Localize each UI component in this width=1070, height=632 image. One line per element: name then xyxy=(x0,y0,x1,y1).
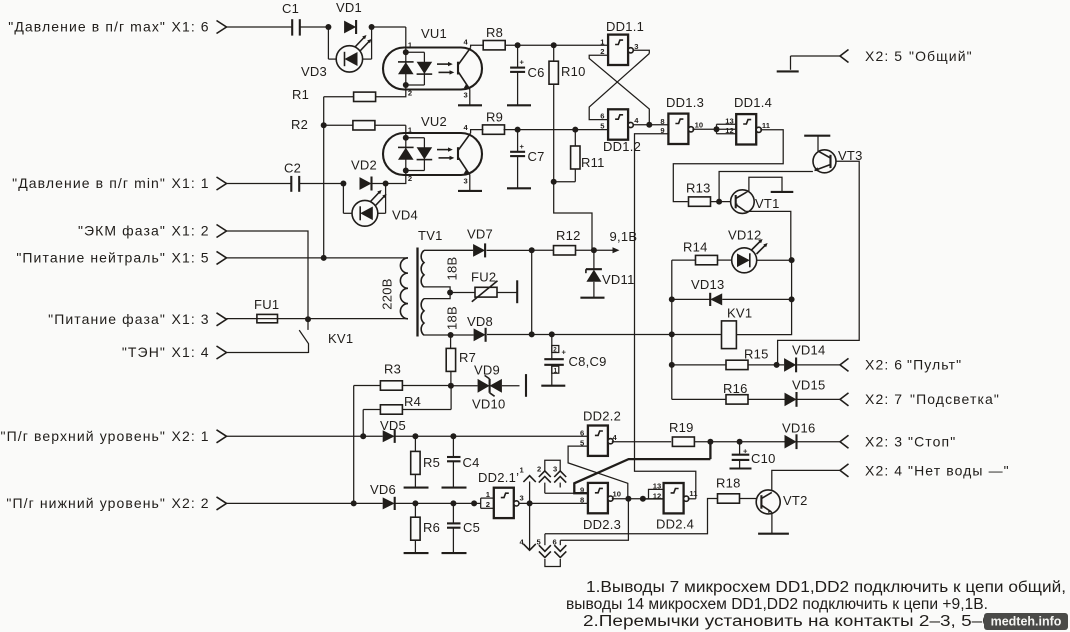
capacitor C8 C9 xyxy=(544,334,606,385)
wire VT2 emitter xyxy=(770,512,773,533)
svg-text:"ТЭН": "ТЭН" xyxy=(122,344,166,360)
svg-text:VD9: VD9 xyxy=(474,363,500,378)
transistor VT3 xyxy=(813,148,863,173)
diode VD8 xyxy=(474,328,486,342)
node VD1-out xyxy=(369,24,375,30)
svg-text:+: + xyxy=(562,348,567,357)
DD2.1 pin labels xyxy=(486,490,524,509)
node R3 X2:2 xyxy=(351,500,357,506)
relay coil KV1 xyxy=(722,306,753,349)
svg-text:"Стоп": "Стоп" xyxy=(908,434,956,450)
node DD1.34 xyxy=(714,126,720,132)
svg-text:9,1В: 9,1В xyxy=(610,229,638,244)
svg-text:C4: C4 xyxy=(463,455,480,470)
svg-text:"Пульт": "Пульт" xyxy=(907,357,962,373)
svg-text:2: 2 xyxy=(408,88,412,97)
ground VT2 xyxy=(758,532,789,535)
gate DD1.3 xyxy=(666,95,704,144)
node 9.1V xyxy=(591,247,597,253)
svg-text:DD2.2: DD2.2 xyxy=(583,409,621,424)
svg-text:+: + xyxy=(520,58,525,67)
diode VD7 xyxy=(473,243,485,257)
ground VU1 pin3 xyxy=(458,104,482,106)
terminal X2:2 "П/г нижний уровень" xyxy=(6,495,226,511)
suppressor VD9 VD10 xyxy=(451,363,520,412)
diode VD6 xyxy=(370,482,396,510)
svg-text:FU2: FU2 xyxy=(471,270,496,285)
node R10R11 join xyxy=(551,179,557,185)
DD2.4 pin labels xyxy=(653,482,698,501)
contact 2 xyxy=(537,465,551,494)
DD1.2 pin labels xyxy=(600,112,639,131)
node R10 top xyxy=(551,42,557,48)
svg-text:2: 2 xyxy=(486,500,490,509)
svg-text:VD7: VD7 xyxy=(467,227,493,242)
gate DD2.2 xyxy=(583,409,621,456)
terminal X1:6 "Давление в п/г max" xyxy=(8,19,226,35)
ground VU2 pin3 xyxy=(458,190,482,192)
resistor R7 xyxy=(446,335,476,386)
svg-text:X1: 5: X1: 5 xyxy=(172,249,210,265)
wire X1:1 row xyxy=(227,183,386,185)
svg-text:X2: 2: X2: 2 xyxy=(172,495,210,511)
resistor R9 xyxy=(483,110,505,135)
chassis X2:5 xyxy=(777,56,799,71)
svg-text:6: 6 xyxy=(580,428,584,437)
gate DD2.1 xyxy=(478,470,519,518)
wire R2 to VU2 pin1 xyxy=(406,125,413,138)
capacitor C2 xyxy=(284,161,301,192)
svg-text:X2: 6: X2: 6 xyxy=(865,357,903,373)
terminal X2:3 xyxy=(840,434,956,450)
terminal X2:7 xyxy=(840,391,1000,407)
node C5 top xyxy=(450,500,456,506)
svg-text:R11: R11 xyxy=(581,155,605,170)
wire DD1.2 out xyxy=(633,124,668,126)
wire DD1.3 pin9 rail xyxy=(635,134,696,499)
svg-text:VD13: VD13 xyxy=(691,277,725,292)
wire VT3 base xyxy=(778,161,860,365)
svg-text:KV1: KV1 xyxy=(727,306,752,321)
terminal X2:5 xyxy=(791,48,973,64)
node C6 top xyxy=(515,42,521,48)
TV1 primary winding xyxy=(227,258,409,319)
VU2 pin3 wire xyxy=(464,175,470,191)
fuse FU1 xyxy=(227,297,309,323)
resistor R8 xyxy=(483,25,505,50)
VU2 pin2 wire xyxy=(386,171,413,184)
gate DD1.1 xyxy=(606,19,644,65)
svg-text:R19: R19 xyxy=(669,420,694,435)
svg-text:X1: 2: X1: 2 xyxy=(172,223,210,239)
svg-text:"Нет воды —": "Нет воды —" xyxy=(908,463,1010,479)
svg-text:11: 11 xyxy=(689,489,698,498)
svg-text:VT1: VT1 xyxy=(755,196,780,211)
node VT1 base xyxy=(716,199,722,205)
contact 4 xyxy=(520,503,536,550)
svg-text:X1: 6: X1: 6 xyxy=(172,19,210,35)
node R7 bottom xyxy=(448,383,454,389)
wire VD16 to X2:3 xyxy=(798,441,841,443)
svg-text:10: 10 xyxy=(613,490,621,499)
diode VD1 xyxy=(336,0,362,34)
svg-text:6: 6 xyxy=(553,538,557,547)
wire VT1 base to VT3 emitter xyxy=(719,172,813,202)
node VD14 in xyxy=(774,362,780,368)
svg-text:R6: R6 xyxy=(423,520,440,535)
capacitor C10 xyxy=(732,442,776,468)
wire R4 up join xyxy=(450,386,452,410)
wire DD1.4 out to R13 xyxy=(673,130,783,202)
node R6 top xyxy=(412,500,418,506)
node R11 top xyxy=(572,127,578,133)
node C1-VD1 xyxy=(325,24,331,30)
node tap xyxy=(447,290,453,296)
svg-text:R16: R16 xyxy=(723,381,748,396)
svg-text:3: 3 xyxy=(464,91,468,100)
resistor R15 xyxy=(672,347,784,370)
node R2 xyxy=(321,122,327,128)
gate DD1.2 xyxy=(603,109,641,154)
ground R5 xyxy=(404,487,429,489)
wire X1:2 drop xyxy=(227,231,309,319)
label 18V top xyxy=(445,257,460,281)
svg-text:3: 3 xyxy=(520,494,524,503)
svg-text:X1: 1: X1: 1 xyxy=(172,175,210,191)
LED VD3 xyxy=(301,27,372,79)
svg-text:2: 2 xyxy=(537,465,541,474)
wire contact6 line xyxy=(560,499,628,541)
svg-text:"П/г верхний уровень": "П/г верхний уровень" xyxy=(1,428,166,444)
contact KV1 xyxy=(299,319,353,353)
terminal X1:3 "Питание фаза" xyxy=(48,311,226,327)
resistor R3 xyxy=(354,362,451,391)
capacitor C4 xyxy=(447,436,480,487)
svg-text:C8,C9: C8,C9 xyxy=(569,354,607,369)
resistor R5 xyxy=(411,436,440,487)
ground C5 xyxy=(442,552,467,554)
svg-text:TV1: TV1 xyxy=(418,228,443,243)
resistor R10 xyxy=(549,45,586,182)
wire feedback A xyxy=(574,442,710,494)
svg-text:12: 12 xyxy=(653,491,661,500)
ground R6 xyxy=(404,552,429,554)
wire VD14 to X2:6 xyxy=(797,364,840,366)
svg-text:DD1.4: DD1.4 xyxy=(734,95,772,110)
wire R4 drop xyxy=(362,410,364,437)
resistor R4 xyxy=(363,394,451,414)
node contact1 xyxy=(527,500,533,506)
ground C8C9 xyxy=(541,385,565,387)
svg-text:+: + xyxy=(520,142,525,151)
svg-text:R1: R1 xyxy=(292,87,309,102)
wire DD2.3 out xyxy=(612,498,664,500)
resistor R18 xyxy=(716,476,757,504)
svg-text:"Питание нейтраль": "Питание нейтраль" xyxy=(16,249,166,265)
svg-text:"Давление в п/г min": "Давление в п/г min" xyxy=(12,175,166,191)
svg-text:10: 10 xyxy=(695,121,703,130)
svg-text:11: 11 xyxy=(762,121,771,130)
DD1.4 pin labels xyxy=(725,117,770,136)
node C4 top xyxy=(450,433,456,439)
wire VD7 out xyxy=(487,249,532,251)
svg-text:VD15: VD15 xyxy=(792,378,826,393)
svg-text:12: 12 xyxy=(725,126,733,135)
svg-text:C1: C1 xyxy=(282,1,299,16)
svg-text:18В: 18В xyxy=(445,306,460,330)
svg-text:R15: R15 xyxy=(744,347,769,362)
node VD13 left xyxy=(669,296,675,302)
svg-text:выводы 14 микросхем DD1,DD2 по: выводы 14 микросхем DD1,DD2 подключить к… xyxy=(566,596,988,613)
TV1 secondary 2 xyxy=(421,299,450,336)
transformer TV1 core xyxy=(418,228,443,337)
svg-text:X2: 7: X2: 7 xyxy=(865,391,903,407)
resistor R1 xyxy=(292,87,376,102)
DD1.1 pin labels xyxy=(600,37,638,56)
svg-text:VD10: VD10 xyxy=(472,397,506,412)
svg-text:C10: C10 xyxy=(751,451,776,466)
svg-text:"Питание фаза": "Питание фаза" xyxy=(48,311,166,327)
resistor R12 xyxy=(532,228,594,255)
note line 3 xyxy=(583,613,998,630)
node VD8 in xyxy=(448,332,454,338)
svg-text:medteh.info: medteh.info xyxy=(991,615,1062,629)
ground VD11 xyxy=(580,297,604,299)
resistor R6 xyxy=(411,503,440,552)
resistor R19 xyxy=(669,420,694,446)
terminal X2:6 xyxy=(840,357,962,373)
node VD7 out xyxy=(529,247,535,253)
svg-text:8: 8 xyxy=(660,117,664,126)
wire KV1 right xyxy=(736,299,791,334)
capacitor C7 xyxy=(510,130,545,188)
node R5 top xyxy=(412,433,418,439)
node phase xyxy=(305,316,311,322)
svg-text:VD1: VD1 xyxy=(336,0,362,15)
svg-text:R10: R10 xyxy=(561,64,586,79)
LED VD12 xyxy=(728,228,792,273)
svg-text:KV1: KV1 xyxy=(328,331,353,346)
wire R18 left xyxy=(545,499,718,534)
svg-text:DD1.2: DD1.2 xyxy=(603,139,641,154)
svg-text:R12: R12 xyxy=(556,228,581,243)
svg-text:VU1: VU1 xyxy=(421,26,447,41)
wire DD2.1 pin jog xyxy=(474,498,494,508)
gate DD1.4 xyxy=(734,95,772,145)
wire DD2.4 out up xyxy=(688,498,696,500)
transistor VT2 xyxy=(756,490,807,514)
svg-text:X1: 4: X1: 4 xyxy=(172,344,210,360)
svg-text:13: 13 xyxy=(725,117,733,126)
node DD2.3 out xyxy=(625,496,631,502)
svg-text:R9: R9 xyxy=(486,110,503,125)
svg-text:VD11: VD11 xyxy=(602,272,635,287)
svg-text:3: 3 xyxy=(634,42,638,51)
capacitor C1 xyxy=(282,1,300,36)
svg-text:C2: C2 xyxy=(284,161,301,176)
diode VD15 xyxy=(785,378,826,407)
svg-text:DD2.4: DD2.4 xyxy=(656,517,694,532)
svg-text:VU2: VU2 xyxy=(421,114,447,129)
svg-text:VT2: VT2 xyxy=(783,493,808,508)
arrow 9.1V xyxy=(594,229,637,253)
svg-text:13: 13 xyxy=(653,482,661,491)
svg-text:C6: C6 xyxy=(528,65,545,80)
node C7 top xyxy=(515,127,521,133)
svg-text:VD5: VD5 xyxy=(380,418,406,433)
wire TV1 to VD7 xyxy=(424,227,493,251)
diode VD2 xyxy=(351,158,377,191)
wire KV1vert xyxy=(671,260,673,399)
svg-text:R3: R3 xyxy=(384,362,401,377)
wire VD12 vert xyxy=(791,260,793,299)
jumper 2-3 xyxy=(545,460,560,471)
svg-text:R8: R8 xyxy=(486,25,503,40)
svg-text:C7: C7 xyxy=(528,149,545,164)
wire phase to TV1 xyxy=(308,318,408,320)
node DD1.2 out xyxy=(646,122,652,128)
node C2-VD2 xyxy=(340,181,346,187)
DD2.2 pin labels xyxy=(580,428,618,447)
svg-text:VD2: VD2 xyxy=(351,158,377,173)
capacitor C6 xyxy=(510,45,545,104)
node R19 out xyxy=(707,439,713,445)
DD1.3 pin labels xyxy=(660,117,703,135)
ground C10 xyxy=(730,467,752,469)
svg-text:VD4: VD4 xyxy=(392,208,418,223)
contact bar VD9 xyxy=(525,374,527,397)
wire DD2.2 pin5 cross xyxy=(568,446,628,499)
resistor R16 xyxy=(672,381,785,404)
contact 1 xyxy=(520,466,536,504)
node DD2.4 in xyxy=(640,496,646,502)
svg-text:"П/г нижний уровень": "П/г нижний уровень" xyxy=(6,495,166,511)
wire R10R11 to 9.1V node xyxy=(554,182,592,251)
TV1 secondary tap xyxy=(424,287,450,299)
wire contact2 to pin9 xyxy=(545,492,588,494)
node DD2.1 in xyxy=(471,500,477,506)
wire VD8 rail xyxy=(487,334,722,336)
fuse FU2 xyxy=(450,270,517,302)
label 18V bottom xyxy=(445,306,460,330)
svg-text:+: + xyxy=(743,447,748,456)
wire DD2.4 pin jog xyxy=(643,489,664,499)
svg-text:R18: R18 xyxy=(716,476,741,491)
svg-text:1: 1 xyxy=(554,367,558,374)
node VD2-out xyxy=(383,181,389,187)
node rail KV1vert xyxy=(669,331,675,337)
svg-text:R14: R14 xyxy=(683,240,708,255)
svg-text:220В: 220В xyxy=(380,278,395,309)
wire to VU1 pin1 xyxy=(406,27,413,52)
node VD8 out xyxy=(529,331,535,337)
diode VD5 xyxy=(380,418,406,443)
node C10 top xyxy=(737,439,743,445)
svg-text:X2: 1: X2: 1 xyxy=(172,428,210,444)
contact 3 xyxy=(553,465,566,488)
svg-text:C5: C5 xyxy=(463,520,480,535)
node VD12 right xyxy=(789,257,795,263)
VU2 pin4 wire to R9 xyxy=(464,123,484,133)
TV1 secondary 1 xyxy=(421,250,473,287)
wire DD1.1 pin2 cross xyxy=(589,55,649,124)
wire X2:2 row xyxy=(227,502,475,504)
wire VT1 collector contact xyxy=(747,177,794,192)
wire DD1.3 out xyxy=(692,128,736,130)
wire rect join vertical xyxy=(531,250,533,334)
gate DD2.4 xyxy=(656,483,694,532)
terminal X2:4 xyxy=(840,463,1010,479)
terminal X2:1 "П/г верхний уровень" xyxy=(1,428,227,444)
optocoupler VU2 xyxy=(383,114,482,175)
resistor R2 xyxy=(291,117,406,132)
svg-text:"ЭКМ фаза": "ЭКМ фаза" xyxy=(78,223,166,239)
wire TV1 to VD8 xyxy=(451,314,493,335)
svg-text:"Общий": "Общий" xyxy=(909,48,973,64)
wire R9 to DD1.2 xyxy=(504,129,609,131)
note line 2 xyxy=(566,596,988,613)
node R4 X2:1 xyxy=(360,433,366,439)
ground C4 xyxy=(442,487,467,489)
terminal X1:4 "ТЭН" xyxy=(122,344,227,360)
node R15 left xyxy=(669,362,675,368)
svg-text:18В: 18В xyxy=(445,257,460,281)
note line 1 xyxy=(586,579,1066,596)
terminal X1:5 "Питание нейтраль" xyxy=(16,249,226,265)
svg-text:6: 6 xyxy=(600,112,604,121)
gate DD2.3 xyxy=(583,483,621,532)
watermark medteh.info xyxy=(984,613,1068,630)
wire DD1.1 pin3 cross xyxy=(589,50,649,119)
svg-text:FU1: FU1 xyxy=(254,297,279,312)
node VD13 right xyxy=(789,296,795,302)
wire R13 to VT1 xyxy=(711,201,731,203)
DD2.3 pin labels xyxy=(580,485,621,504)
wire X2:1 row xyxy=(227,435,588,437)
svg-text:2.Перемычки установить на конт: 2.Перемычки установить на контакты 2–3, … xyxy=(583,613,998,630)
diode VD13 xyxy=(672,277,792,306)
wire R8 to DD1.1 xyxy=(505,44,608,46)
wire R1-R2 vertical xyxy=(323,97,325,258)
contact bar FU2 xyxy=(516,280,518,303)
svg-text:"Давление в п/г max": "Давление в п/г max" xyxy=(8,19,166,35)
svg-text:VD12: VD12 xyxy=(728,228,762,243)
svg-text:3: 3 xyxy=(464,177,468,186)
svg-text:X2: 3: X2: 3 xyxy=(865,434,903,450)
node C8 top xyxy=(549,331,555,337)
diode VD16 xyxy=(782,421,816,450)
svg-text:3: 3 xyxy=(553,465,557,474)
svg-text:VD8: VD8 xyxy=(467,314,493,329)
zener VD11 xyxy=(586,250,635,297)
contact 6 xyxy=(553,538,567,558)
svg-text:DD2.3: DD2.3 xyxy=(583,517,621,532)
svg-text:R5: R5 xyxy=(423,455,440,470)
svg-text:R13: R13 xyxy=(686,181,711,196)
wire R3 drop xyxy=(353,386,355,504)
optocoupler VU1 xyxy=(383,26,482,90)
svg-text:X2: 5: X2: 5 xyxy=(865,48,903,64)
wire X1:4 ten xyxy=(227,352,309,354)
svg-text:DD1.1: DD1.1 xyxy=(606,19,644,34)
svg-text:VD3: VD3 xyxy=(301,64,327,79)
svg-text:DD2.1’: DD2.1’ xyxy=(478,470,519,485)
wire X2:4 to VT2 xyxy=(772,470,840,490)
wire X1:6 row xyxy=(227,26,406,28)
LED VD4 xyxy=(343,184,418,227)
svg-text:VD16: VD16 xyxy=(782,421,816,436)
jumper 5-6 xyxy=(545,559,560,567)
